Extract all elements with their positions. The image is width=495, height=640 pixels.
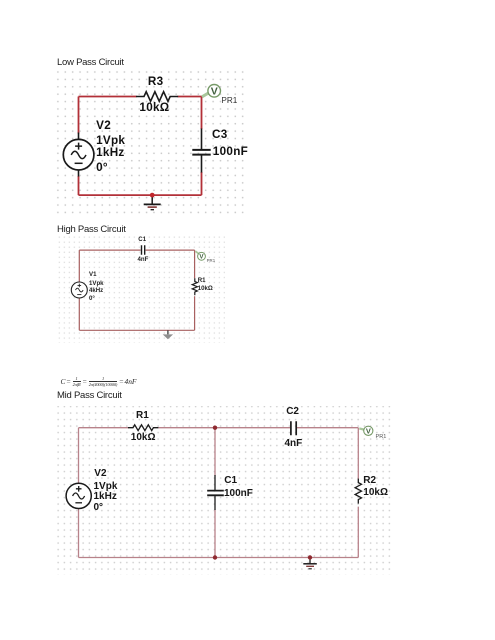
svg-text:V: V [211, 86, 218, 98]
svg-text:V: V [366, 427, 371, 436]
